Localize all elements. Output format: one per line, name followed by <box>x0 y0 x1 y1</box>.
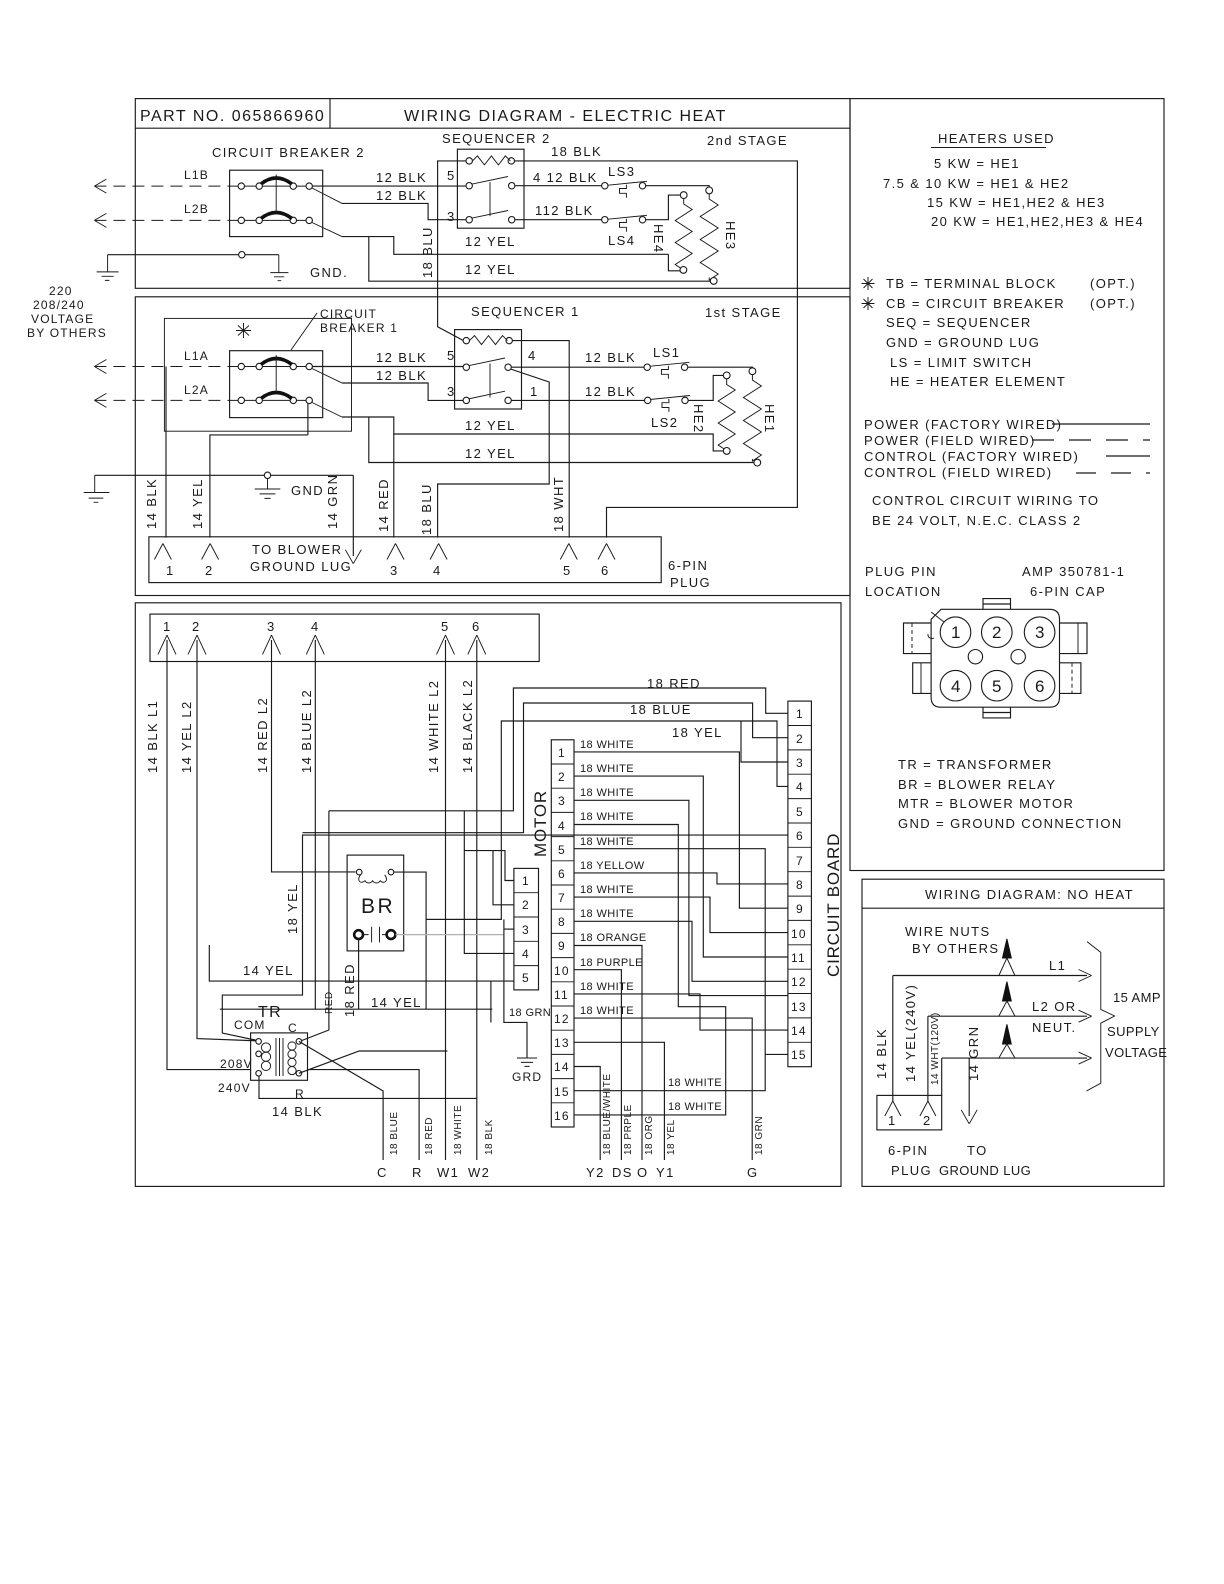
heater HE1 top terminal <box>749 368 756 375</box>
transformer TR <box>251 1033 308 1080</box>
heater HE3 top terminal <box>706 187 713 194</box>
heater HE2 top terminal <box>723 372 730 379</box>
svg-text:GND = GROUND CONNECTION: GND = GROUND CONNECTION <box>898 816 1123 831</box>
wire 12 BLK second B <box>342 383 466 400</box>
wire 3 <box>942 1057 1087 1059</box>
svg-text:(OPT.): (OPT.) <box>1090 276 1136 291</box>
SEQ2 tie <box>489 182 491 216</box>
wire 18 RED <box>329 688 788 811</box>
TR 240V tap down 14 BLK <box>259 1076 477 1098</box>
motor wire m13 to Y1 <box>574 1042 664 1160</box>
svg-text:GRD: GRD <box>512 1070 542 1084</box>
legend box right <box>850 99 1164 871</box>
circuit board strip <box>788 701 812 1067</box>
svg-text:4: 4 <box>951 677 960 696</box>
svg-text:BE 24 VOLT, N.E.C. CLASS 2: BE 24 VOLT, N.E.C. CLASS 2 <box>872 513 1082 528</box>
CB2 arc top <box>261 178 292 184</box>
wire 12YEL to HE4 bottom <box>668 254 680 270</box>
svg-text:PLUG PIN: PLUG PIN <box>865 564 937 579</box>
SEQ2 row3 arm <box>472 211 509 219</box>
motor wire m12 to G <box>574 1018 752 1160</box>
wire 14 YEL tap <box>307 404 309 435</box>
svg-text:15 KW = HE1,HE2 & HE3: 15 KW = HE1,HE2 & HE3 <box>927 195 1106 210</box>
motor wire m3 to CB13 <box>574 800 788 995</box>
CB1 terminals row2 <box>238 397 244 403</box>
motor wire m1 to CB9 <box>574 752 788 908</box>
wire 14 GRN down arrow <box>352 475 354 556</box>
wire CB6 down left to TR COM <box>222 835 788 1040</box>
svg-text:18 YEL: 18 YEL <box>666 1119 677 1155</box>
svg-text:14 WHITE L2: 14 WHITE L2 <box>426 680 441 773</box>
motor wire m10 to DS <box>574 970 621 1160</box>
svg-text:15 AMP: 15 AMP <box>1113 990 1161 1005</box>
wire pin3 14RED down to BR coil <box>272 640 356 872</box>
svg-text:14 YEL L2: 14 YEL L2 <box>179 700 194 773</box>
limit switch LS2 <box>645 396 690 431</box>
svg-text:PLUG: PLUG <box>891 1163 932 1178</box>
6-pin plug strip box B <box>149 537 661 583</box>
wire row5 out 4 12 BLK <box>515 185 602 187</box>
svg-text:5: 5 <box>522 971 530 985</box>
wire 18 BLU vertical from coil <box>438 161 466 341</box>
svg-text:18 WHT: 18 WHT <box>551 476 566 532</box>
wire 14 GRN down arrow <box>968 1058 970 1116</box>
svg-text:WIRING DIAGRAM - ELECTRIC HEAT: WIRING DIAGRAM - ELECTRIC HEAT <box>404 108 727 125</box>
wire 18 YEL branch CB3 <box>741 721 788 762</box>
svg-text:14 YEL: 14 YEL <box>190 478 205 529</box>
title bar bottom line <box>135 127 850 129</box>
wire L2 <box>928 1015 1087 1017</box>
svg-text:2: 2 <box>522 898 530 912</box>
wire nut 2 <box>1003 982 1012 1001</box>
svg-text:WIRING DIAGRAM: NO HEAT: WIRING DIAGRAM: NO HEAT <box>925 887 1134 902</box>
svg-text:18 PURPLE: 18 PURPLE <box>580 957 643 969</box>
CB2 tie bar <box>275 175 277 213</box>
svg-text:1: 1 <box>796 707 804 721</box>
heater HE4 top terminal <box>680 192 687 199</box>
wire diag CB2 to 12 BLK second <box>312 188 342 203</box>
ground outside-left B <box>84 475 110 502</box>
svg-text:13: 13 <box>791 1000 807 1014</box>
body <box>931 609 1059 707</box>
svg-text:2: 2 <box>923 1113 932 1128</box>
svg-text:18 WHITE: 18 WHITE <box>580 884 634 896</box>
svg-text:4: 4 <box>558 819 566 833</box>
keying notch <box>928 612 944 639</box>
wire 14 BLK down <box>892 976 894 1102</box>
svg-text:14 BLK: 14 BLK <box>272 1104 323 1119</box>
svg-text:HE = HEATER ELEMENT: HE = HEATER ELEMENT <box>890 374 1066 389</box>
svg-text:CIRCUIT: CIRCUIT <box>320 307 377 321</box>
svg-text:240V: 240V <box>218 1081 251 1095</box>
svg-text:4: 4 <box>433 563 442 578</box>
wire L1B dashed <box>94 185 232 187</box>
svg-text:L2B: L2B <box>184 202 209 216</box>
right ear upper <box>1060 623 1088 654</box>
motor wire m6 to CB8 <box>574 873 788 884</box>
svg-text:LOCATION: LOCATION <box>865 584 942 599</box>
bottom tab <box>983 707 1011 718</box>
svg-text:3: 3 <box>522 923 530 937</box>
motor wire m11 to CB14 <box>574 994 788 1030</box>
callout line <box>291 313 317 350</box>
strip pin3 stub <box>504 928 514 930</box>
svg-text:VOLTAGE: VOLTAGE <box>1105 1045 1167 1060</box>
wire 18 BLK from coil right <box>515 161 798 538</box>
SEQ2 row5 arm <box>472 177 509 185</box>
strip feeds pins 1 2 <box>464 851 514 905</box>
svg-text:GROUND LUG: GROUND LUG <box>250 559 352 574</box>
svg-text:18 WHITE: 18 WHITE <box>580 908 634 920</box>
svg-text:9: 9 <box>558 939 566 953</box>
wire 12 YEL upper B path <box>342 417 723 451</box>
svg-text:BR = BLOWER RELAY: BR = BLOWER RELAY <box>898 777 1056 792</box>
svg-text:12: 12 <box>791 975 807 989</box>
svg-text:4 12 BLK: 4 12 BLK <box>533 170 598 185</box>
CB2 through wires <box>232 185 312 187</box>
box A 2nd stage outer <box>135 99 850 289</box>
supply brace <box>1086 942 1114 1091</box>
wire 12 YEL lower branch <box>369 237 711 282</box>
6-pin receptacle strip box <box>150 614 539 661</box>
svg-text:MOTOR: MOTOR <box>531 790 550 857</box>
svg-text:3: 3 <box>267 619 276 634</box>
svg-text:CB = CIRCUIT BREAKER: CB = CIRCUIT BREAKER <box>886 296 1065 311</box>
svg-text:6: 6 <box>472 619 481 634</box>
svg-text:5: 5 <box>796 805 804 819</box>
box C lower outer <box>135 603 841 1187</box>
svg-text:18 RED: 18 RED <box>647 676 701 691</box>
svg-text:18 BLUE: 18 BLUE <box>389 1111 400 1155</box>
plug pin 6 <box>598 544 615 560</box>
svg-text:18 GRN: 18 GRN <box>754 1116 765 1155</box>
terminal circle gnd A <box>239 252 245 258</box>
CB1 arc bottom <box>261 393 292 399</box>
wire diag CB2 L2B to yel <box>312 223 342 237</box>
svg-text:11: 11 <box>554 988 569 1002</box>
wire diag CB1 to second blk <box>312 369 342 384</box>
SEQ2 coil zigzag <box>472 156 510 165</box>
svg-text:14 RED: 14 RED <box>376 478 391 532</box>
wire LS1 to HE1 <box>688 366 753 369</box>
asterisk CB <box>862 297 875 310</box>
heater HE4 bottom terminal <box>680 267 687 274</box>
svg-text:1st STAGE: 1st STAGE <box>705 305 782 320</box>
svg-text:BY OTHERS: BY OTHERS <box>27 326 107 340</box>
svg-text:NEUT.: NEUT. <box>1032 1020 1077 1035</box>
sequencer SEQ1 box <box>455 330 522 409</box>
svg-text:18 WHITE: 18 WHITE <box>580 981 634 993</box>
svg-text:SEQ = SEQUENCER: SEQ = SEQUENCER <box>886 315 1032 330</box>
svg-text:3: 3 <box>390 563 399 578</box>
motor wire m8 to CB12 <box>574 921 788 981</box>
svg-text:2nd STAGE: 2nd STAGE <box>707 133 788 148</box>
wire 14 YEL B horizontal <box>220 1008 493 1010</box>
ground inside B <box>255 479 281 499</box>
svg-text:W2: W2 <box>468 1165 490 1180</box>
heater HE3 bottom terminal <box>710 278 717 285</box>
svg-text:18 YEL: 18 YEL <box>285 883 300 934</box>
svg-text:3: 3 <box>796 756 804 770</box>
svg-text:(OPT.): (OPT.) <box>1090 296 1136 311</box>
no-heat box <box>862 879 1164 1186</box>
svg-text:LS3: LS3 <box>608 164 635 179</box>
title divider <box>329 99 331 129</box>
svg-text:BREAKER 1: BREAKER 1 <box>320 321 398 335</box>
wire nut 1 <box>1003 939 1012 958</box>
svg-text:PART NO. 065866960: PART NO. 065866960 <box>140 108 325 125</box>
svg-text:L2 OR: L2 OR <box>1032 999 1077 1014</box>
svg-text:VOLTAGE: VOLTAGE <box>31 312 94 326</box>
svg-text:10: 10 <box>791 927 807 941</box>
limit switch LS1 <box>644 345 689 379</box>
TR C diag out to C terminal <box>299 1041 383 1160</box>
optional box around CB1 <box>164 318 351 431</box>
svg-text:TR = TRANSFORMER: TR = TRANSFORMER <box>898 757 1053 772</box>
svg-text:SEQUENCER 2: SEQUENCER 2 <box>442 131 551 146</box>
svg-text:COM: COM <box>234 1018 266 1032</box>
BR contact left wire down <box>358 939 360 1009</box>
svg-text:CONTROL CIRCUIT WIRING TO: CONTROL CIRCUIT WIRING TO <box>872 493 1099 508</box>
svg-text:10: 10 <box>554 964 570 978</box>
CB1 tie bar <box>275 355 277 393</box>
no-heat title line <box>862 907 1164 909</box>
svg-text:2: 2 <box>796 732 804 746</box>
svg-text:HE1: HE1 <box>762 404 777 434</box>
svg-text:6-PIN: 6-PIN <box>668 558 708 573</box>
svg-text:5: 5 <box>558 843 566 857</box>
svg-text:5: 5 <box>441 619 450 634</box>
wire 12 BLK row5 seq1 <box>312 366 466 368</box>
svg-text:1: 1 <box>951 623 960 642</box>
wire L2A dashed <box>94 399 232 401</box>
wire 14 YEL A to relay strip pin5 <box>209 945 514 981</box>
circuit breaker CB2 box <box>230 170 323 236</box>
sequencer SEQ2 box <box>457 149 524 228</box>
svg-text:20 KW = HE1,HE2,HE3 & HE4: 20 KW = HE1,HE2,HE3 & HE4 <box>931 214 1144 229</box>
wire row3 out 12 BLK LS2 <box>511 399 644 401</box>
svg-text:18 YEL: 18 YEL <box>672 725 723 740</box>
svg-text:SUPPLY: SUPPLY <box>1107 1024 1160 1039</box>
plug pin 2 <box>202 544 219 560</box>
svg-text:112 BLK: 112 BLK <box>535 203 594 218</box>
svg-text:208/240: 208/240 <box>33 298 85 312</box>
arrowhead 14 GRN <box>345 550 361 564</box>
svg-text:5: 5 <box>447 348 456 363</box>
svg-text:3: 3 <box>447 209 456 224</box>
asterisk TB <box>862 277 875 290</box>
svg-text:1: 1 <box>558 746 566 760</box>
svg-text:11: 11 <box>791 951 806 965</box>
svg-text:15: 15 <box>791 1048 807 1062</box>
wire gnd B horizontal <box>95 474 354 476</box>
svg-text:12: 12 <box>554 1012 570 1026</box>
CB2 terminals row1 <box>238 183 244 189</box>
motor wire m4 to m16 <box>574 825 726 1115</box>
svg-text:18 WHITE: 18 WHITE <box>453 1105 464 1155</box>
motor wire m9 to O <box>574 946 642 1161</box>
small circles <box>968 650 982 664</box>
svg-text:4: 4 <box>522 947 530 961</box>
svg-text:14: 14 <box>554 1060 570 1074</box>
svg-text:1: 1 <box>522 874 530 888</box>
SEQ1 row3 contacts <box>463 397 469 403</box>
pin 5 chevron <box>437 635 455 654</box>
svg-text:16: 16 <box>554 1109 570 1123</box>
svg-text:GROUND LUG: GROUND LUG <box>939 1163 1031 1178</box>
svg-text:MTR = BLOWER MOTOR: MTR = BLOWER MOTOR <box>898 796 1074 811</box>
arrow L1A <box>94 360 106 374</box>
svg-text:18 BLU: 18 BLU <box>419 483 434 535</box>
wire pin6 14BLACK down to W2 <box>476 640 478 1160</box>
motor wire m2 to CB11 <box>574 776 788 957</box>
relay terminal strip 1-5 <box>514 868 539 990</box>
svg-text:1: 1 <box>163 619 172 634</box>
svg-text:14 BLK L1: 14 BLK L1 <box>145 700 160 773</box>
svg-text:8: 8 <box>558 915 566 929</box>
svg-text:18 RED: 18 RED <box>424 1117 435 1155</box>
svg-text:12 YEL: 12 YEL <box>465 234 516 249</box>
svg-text:PLUG: PLUG <box>670 575 711 590</box>
svg-text:HEATERS USED: HEATERS USED <box>938 131 1055 146</box>
wire L1 <box>893 975 1087 977</box>
svg-text:14 GRN: 14 GRN <box>966 1026 981 1081</box>
motor wire m5 m15 CB15 shared <box>574 849 788 1091</box>
svg-text:18 WHITE: 18 WHITE <box>668 1077 722 1089</box>
svg-text:Y1: Y1 <box>656 1165 675 1180</box>
svg-text:18 BLUE/WHITE: 18 BLUE/WHITE <box>602 1073 613 1155</box>
svg-text:TO: TO <box>967 1143 988 1158</box>
grd hook from pin3 <box>504 919 527 1058</box>
svg-text:C: C <box>377 1165 388 1180</box>
svg-text:14 YEL: 14 YEL <box>371 995 422 1010</box>
svg-text:LS = LIMIT SWITCH: LS = LIMIT SWITCH <box>890 355 1032 370</box>
pin circles row 2 <box>940 670 971 701</box>
svg-text:8: 8 <box>796 878 804 892</box>
BR contact right gray wire <box>396 934 504 936</box>
plug pin 3 <box>387 544 404 560</box>
svg-text:18 PRPLE: 18 PRPLE <box>623 1104 634 1155</box>
wire pin5 14WHITE down to W1 <box>445 640 447 1160</box>
plug pin 5 <box>560 544 577 560</box>
BR coil <box>356 869 362 875</box>
SEQ1 coil zigzag <box>470 336 508 345</box>
svg-text:L2A: L2A <box>184 383 209 397</box>
svg-text:CIRCUIT BOARD: CIRCUIT BOARD <box>824 833 843 977</box>
pin circles row 1 <box>940 617 971 648</box>
svg-text:18 BLUE: 18 BLUE <box>630 702 692 717</box>
svg-text:WIRE NUTS: WIRE NUTS <box>905 924 991 939</box>
svg-text:18 ORG: 18 ORG <box>644 1115 655 1155</box>
right ear lower <box>1060 663 1081 694</box>
plug pin 4 <box>430 544 447 560</box>
motor block strip <box>551 740 574 1127</box>
svg-text:14 BLUE L2: 14 BLUE L2 <box>299 689 314 773</box>
wire LS2 to HE2 <box>688 375 723 400</box>
wire 18YEL left to BR coil vert <box>426 918 501 920</box>
svg-text:5: 5 <box>992 677 1001 696</box>
svg-text:7.5 & 10 KW = HE1 & HE2: 7.5 & 10 KW = HE1 & HE2 <box>883 176 1069 191</box>
SEQ2 row5 contacts <box>466 183 472 189</box>
svg-text:LS4: LS4 <box>608 233 635 248</box>
svg-text:208V: 208V <box>220 1057 253 1071</box>
svg-text:7: 7 <box>796 854 804 868</box>
wire 18 BLUE <box>303 703 788 833</box>
plug pin 2 <box>920 1101 936 1116</box>
svg-text:Y2: Y2 <box>586 1165 605 1180</box>
svg-text:12 BLK: 12 BLK <box>376 350 427 365</box>
wire pin1 14BLK down to R-line <box>167 640 419 1160</box>
svg-text:14 GRN: 14 GRN <box>325 474 340 529</box>
svg-text:6: 6 <box>558 867 566 881</box>
svg-text:18 BLU: 18 BLU <box>420 226 435 278</box>
heater HE4 zigzag <box>675 199 692 271</box>
svg-text:9: 9 <box>796 902 804 916</box>
wire seq1 coil right to pin5 18WHT <box>512 341 569 538</box>
ground GRD <box>517 1058 537 1066</box>
svg-text:4: 4 <box>311 619 320 634</box>
svg-text:6: 6 <box>796 829 804 843</box>
heater HE2 bottom terminal <box>723 448 730 455</box>
wire gnd A horizontal <box>108 254 279 256</box>
svg-text:HE2: HE2 <box>691 404 706 434</box>
svg-text:18 WHITE: 18 WHITE <box>580 739 634 751</box>
svg-text:14 BLACK L2: 14 BLACK L2 <box>460 679 475 773</box>
core lines <box>276 1038 283 1076</box>
svg-text:14 YEL: 14 YEL <box>243 963 294 978</box>
svg-text:14 WHT(120V): 14 WHT(120V) <box>930 1012 941 1085</box>
left ear upper <box>904 623 932 654</box>
svg-text:18 BLK: 18 BLK <box>551 144 602 159</box>
CB1 through wires <box>232 366 312 368</box>
svg-text:SEQUENCER 1: SEQUENCER 1 <box>471 304 580 319</box>
svg-text:12 YEL: 12 YEL <box>465 418 516 433</box>
svg-text:5: 5 <box>447 168 456 183</box>
pin 2 chevron <box>188 635 206 654</box>
svg-text:14 BLK: 14 BLK <box>144 478 159 529</box>
svg-text:RED: RED <box>324 991 335 1014</box>
wire 14 RED pin3: from CB1 area down <box>393 434 395 538</box>
svg-text:C: C <box>288 1021 298 1035</box>
svg-text:3: 3 <box>447 384 456 399</box>
limit switch LS3 <box>602 164 647 198</box>
AMP connector drawing <box>904 599 1088 718</box>
svg-text:CIRCUIT BREAKER 2: CIRCUIT BREAKER 2 <box>212 145 365 160</box>
heater HE3 zigzag <box>700 194 718 280</box>
wire 14 WHT down <box>941 1058 943 1095</box>
svg-text:1: 1 <box>530 384 539 399</box>
CB1 terminals row1 <box>238 363 244 369</box>
arrow L2B <box>94 213 106 227</box>
svg-text:POWER (FACTORY WIRED): POWER (FACTORY WIRED) <box>864 417 1062 432</box>
svg-text:7: 7 <box>558 891 566 905</box>
svg-text:POWER (FIELD WIRED): POWER (FIELD WIRED) <box>864 433 1036 448</box>
wire 14 BLK tap to pin1 <box>165 367 167 538</box>
terminal circle gnd B <box>264 472 270 478</box>
wire pin4 diag to 18 BLU pin4 <box>438 369 550 538</box>
svg-text:14 BLK: 14 BLK <box>874 1028 889 1079</box>
svg-text:TB = TERMINAL BLOCK: TB = TERMINAL BLOCK <box>886 276 1057 291</box>
svg-text:BY OTHERS: BY OTHERS <box>912 941 1000 956</box>
svg-text:2: 2 <box>205 563 214 578</box>
svg-text:18 WHITE: 18 WHITE <box>580 1005 634 1017</box>
right winding <box>288 1042 296 1050</box>
CB1 arc top <box>261 359 292 365</box>
TR R diag up to W1 line <box>299 1051 448 1073</box>
svg-text:6-PIN CAP: 6-PIN CAP <box>1030 584 1106 599</box>
svg-text:2: 2 <box>992 623 1001 642</box>
relay BR box <box>347 855 404 951</box>
